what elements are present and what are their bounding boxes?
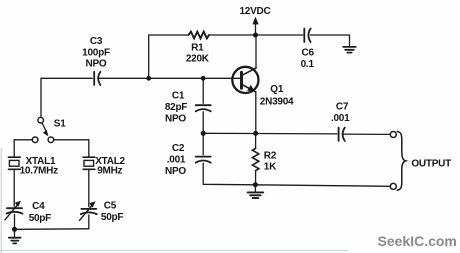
svg-text:R1: R1 <box>191 43 204 54</box>
svg-text:.001: .001 <box>167 155 186 166</box>
svg-text:C5: C5 <box>104 201 117 212</box>
svg-text:C3: C3 <box>90 36 103 47</box>
svg-text:NPO: NPO <box>165 114 186 125</box>
svg-text:9MHz: 9MHz <box>97 165 122 176</box>
svg-text:1K: 1K <box>264 162 277 173</box>
svg-text:SeekIC.com: SeekIC.com <box>378 233 457 249</box>
svg-text:50pF: 50pF <box>101 212 123 223</box>
svg-text:C7: C7 <box>336 102 349 113</box>
svg-text:50pF: 50pF <box>29 213 51 224</box>
svg-text:12VDC: 12VDC <box>240 6 271 17</box>
svg-text:.001: .001 <box>331 113 350 124</box>
svg-text:C1: C1 <box>172 91 185 102</box>
svg-text:0.1: 0.1 <box>301 59 315 70</box>
svg-text:100pF: 100pF <box>82 48 110 59</box>
svg-text:C2: C2 <box>172 143 185 154</box>
svg-text:2N3904: 2N3904 <box>260 97 294 108</box>
svg-text:NPO: NPO <box>86 59 107 70</box>
svg-text:OUTPUT: OUTPUT <box>411 158 451 169</box>
svg-text:10.7MHz: 10.7MHz <box>20 165 59 176</box>
svg-text:S1: S1 <box>54 119 66 130</box>
svg-text:C4: C4 <box>32 201 45 212</box>
svg-text:220K: 220K <box>186 54 210 65</box>
svg-text:C6: C6 <box>302 48 315 59</box>
svg-text:NPO: NPO <box>165 166 186 177</box>
svg-text:R2: R2 <box>264 151 277 162</box>
svg-text:Q1: Q1 <box>270 84 284 95</box>
svg-text:82pF: 82pF <box>165 102 187 113</box>
